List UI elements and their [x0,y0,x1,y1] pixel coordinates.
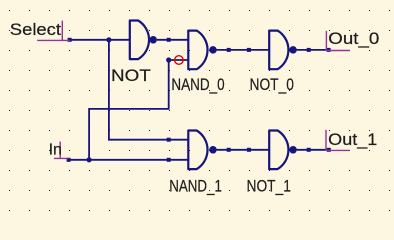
label anchor Out_1 [326,130,350,151]
junction In wire [87,157,92,162]
svg-text:Out_1: Out_1 [328,130,377,149]
wire NAND_1 output to NOT_1 input [217,149,270,151]
svg-text:NOT_1: NOT_1 [247,176,291,195]
svg-text:NOT_0: NOT_0 [250,75,294,94]
svg-text:In: In [49,142,62,159]
gate NAND_1 body [188,131,207,170]
wire NAND_0 bottom input pin [169,59,189,61]
svg-text:NAND_0: NAND_0 [171,75,224,94]
pin-end square In label [67,158,71,162]
junction NAND_0 bottom input [166,57,171,62]
bubble NAND_1 output [209,146,217,154]
svg-text:Select: Select [10,20,61,39]
label marks (purple) [37,21,350,159]
label anchor Select [37,21,70,41]
pin-end square NOT_1 out wire [307,148,311,152]
ERC marker red circle [175,56,184,65]
gate NAND_0 body [188,31,207,70]
pin-end square NOT_0 in [247,48,251,52]
label anchor In [54,142,68,159]
gate NOT_0 body [269,31,288,70]
bubble NOT output [149,36,157,44]
bubble NOT_1 output [289,146,297,154]
pin-end square Select label [68,38,72,42]
pin-end square NAND_1 bottom in [167,158,171,162]
pin-end square NAND_1 out [227,148,231,152]
svg-text:Out_0: Out_0 [328,29,379,48]
gate NOT_1 body [269,131,288,170]
wire NOT output to NAND_0 top input [157,39,188,41]
junction select [106,37,111,42]
wire select vertical down [109,40,188,140]
pin-end square Out_1 label [327,148,331,152]
gate bodies [130,21,289,170]
wire NOT_1 output to Out_1 [297,149,329,151]
bubble NOT_0 output [289,46,297,54]
wire In label to NAND_1 bottom input [69,159,189,161]
pin-end square NOT out / NAND_0 in [167,38,171,42]
pin-end square Out_0 label [327,48,331,52]
wire NOT_0 output to Out_0 [297,49,329,51]
gate NOT body [130,21,149,60]
pin-end square NAND_1 top in [167,138,171,142]
label anchor Out_0 [326,31,350,51]
pin-end square NAND_0 out [227,48,231,52]
svg-text:NOT: NOT [111,66,151,85]
pin-end square NOT_0 out wire [307,48,311,52]
wire Select label to junction [70,39,130,41]
wire NAND_0 output to NOT_0 input [217,49,270,51]
svg-text:NAND_1: NAND_1 [169,176,222,195]
bubble NAND_0 output [209,46,217,54]
pin-end square NOT_1 in [247,148,251,152]
wire In net vertical route [89,60,169,160]
